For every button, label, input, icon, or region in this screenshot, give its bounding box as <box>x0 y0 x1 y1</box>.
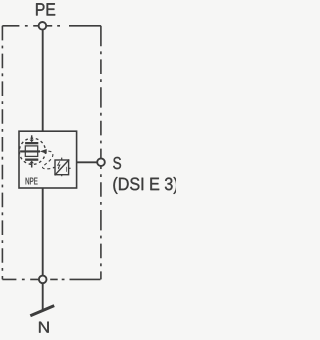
trigger unit squiggle <box>65 167 67 172</box>
trigger unit lightning arrowhead <box>58 167 60 169</box>
trigger unit diagonal <box>55 160 69 176</box>
trigger unit right pin <box>69 167 71 169</box>
enclosure boundary bottom (dash-dot) <box>2 278 101 280</box>
label S <box>113 157 121 169</box>
spark gap F1: dashed circle (triggered spark gap) <box>19 138 45 164</box>
spark gap F1: bottom arrowhead (up) <box>30 161 34 164</box>
wire N tail below node <box>42 279 44 310</box>
enclosure boundary right (dash-dot) <box>100 26 102 280</box>
wire PE node to SPD box <box>42 26 44 132</box>
label NPE <box>26 178 38 185</box>
spark gap F1: top electrode bar <box>25 142 38 144</box>
label (DSI E 3) <box>113 177 177 194</box>
spark gap F1: bottom electrode bar <box>25 159 38 161</box>
trigger arrow head (points left at spark gap) <box>40 149 47 154</box>
trigger impulse dashed hook path <box>42 151 53 169</box>
node S <box>97 158 105 166</box>
node PE <box>39 22 47 30</box>
trigger unit top pin <box>61 158 63 160</box>
trigger unit bottom pin <box>61 175 63 177</box>
trigger unit lightning bolt <box>58 161 60 167</box>
spark gap F1: main electrode line <box>20 150 40 152</box>
node N <box>39 276 47 284</box>
spark gap F1: gap housing rectangle <box>25 146 37 157</box>
terminal clamp slash at N <box>30 306 54 316</box>
spark gap F1: top arrowhead (down) <box>30 140 34 143</box>
spark gap F1: top terminal line <box>31 135 33 140</box>
SPD box U1 (N-PE arrester) <box>19 131 77 188</box>
enclosure boundary left (dash-dot) <box>1 26 3 280</box>
label PE <box>36 3 55 15</box>
trigger unit box (ignition electronics) <box>55 160 69 175</box>
trigger unit left pin <box>53 167 55 169</box>
spark gap F1: bottom terminal line <box>31 163 33 168</box>
wire SPD box to S node <box>77 161 101 163</box>
wire SPD box to N node <box>42 188 44 279</box>
enclosure boundary top (dash-dot) <box>2 25 101 27</box>
label N <box>39 322 49 333</box>
